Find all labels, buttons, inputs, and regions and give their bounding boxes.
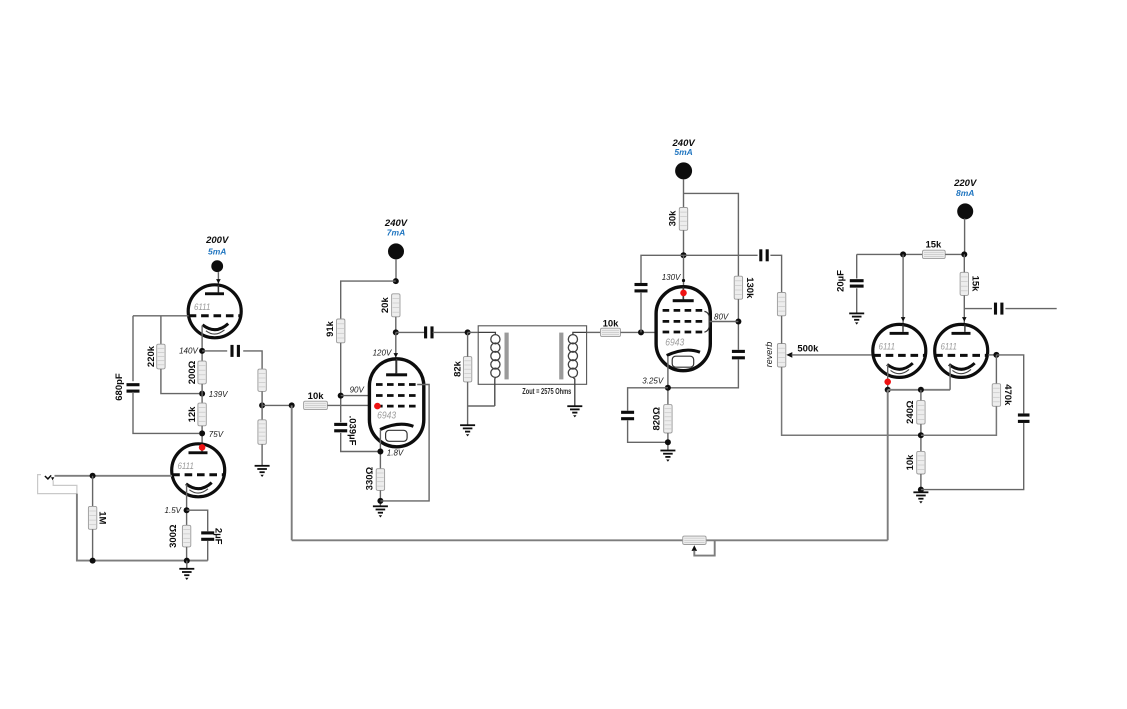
red marker on V4 plate xyxy=(680,290,687,297)
arrowhead on V1 plate lead xyxy=(216,279,221,283)
wire: 82k node into primary xyxy=(468,331,479,333)
wire: divider to ground xyxy=(261,444,263,466)
wire: V1 grid to feedback network xyxy=(133,315,189,317)
node cathode ground xyxy=(377,498,383,504)
wire: 240ohm to 10k xyxy=(920,424,922,451)
svg-text:Zout = 2575 Ohms: Zout = 2575 Ohms xyxy=(522,387,571,396)
capacitor 680pF xyxy=(127,383,140,393)
node 75V xyxy=(199,430,205,436)
svg-text:130V: 130V xyxy=(662,273,681,282)
svg-text:1.8V: 1.8V xyxy=(387,448,404,457)
triode V6 6111 (right pair right) xyxy=(935,324,988,377)
resistor reverb pot upper xyxy=(777,293,785,316)
ground below secondary xyxy=(567,406,582,417)
wire: junction to grid cap xyxy=(641,255,684,283)
node tail ground xyxy=(918,487,924,493)
wire: output stub right xyxy=(1005,308,1056,310)
capacitor right feedback xyxy=(1018,413,1030,423)
wire: tap to 10k node xyxy=(262,404,292,406)
node 139V xyxy=(199,391,205,397)
wire: V3 cathode to 330ohm xyxy=(379,430,381,469)
triode V2 6111 (input stage bottom) xyxy=(172,444,225,497)
svg-text:139V: 139V xyxy=(209,390,228,399)
capacitor to reverb pot xyxy=(759,249,769,261)
arrowhead V5 plate lead xyxy=(901,317,906,321)
wire: grid wire down to 220k xyxy=(160,316,162,344)
pot wiper arrow 500k xyxy=(786,352,792,358)
node 80V xyxy=(735,319,741,325)
wire: 15k to V6 plate xyxy=(963,295,965,325)
resistor 10k (tail) xyxy=(917,451,925,474)
supply dot 240V 5mA xyxy=(672,138,696,180)
wire: bypass cap to ground node xyxy=(628,420,668,442)
wire: V6 cathode down xyxy=(949,365,951,390)
wire: wiper to V5 grid xyxy=(792,354,873,356)
svg-text:75V: 75V xyxy=(209,430,224,439)
transformer primary winding xyxy=(478,332,500,406)
coupling capacitor at 140V xyxy=(230,345,240,357)
wire: feedback riser left xyxy=(291,405,293,540)
svg-text:reverb: reverb xyxy=(764,342,774,368)
wire: down to 680pF top xyxy=(132,316,134,381)
node 82k / primary xyxy=(465,329,471,335)
svg-text:30k: 30k xyxy=(668,210,679,227)
wire: V2 cathode to 300ohm xyxy=(186,485,188,526)
resistor 30k xyxy=(679,208,687,231)
svg-text:6111: 6111 xyxy=(194,302,211,313)
wire: junction to 91k xyxy=(341,281,396,319)
ground below 20uF xyxy=(849,313,864,324)
wire: input to V2 grid xyxy=(55,475,173,477)
wire: secondary to 10k xyxy=(587,331,601,333)
red marker on V2 plate xyxy=(199,444,206,451)
svg-text:10k: 10k xyxy=(603,318,620,329)
wire: 15k to supply node xyxy=(945,253,964,255)
wire: V3 suppressor return xyxy=(380,385,429,501)
wire: divider middle xyxy=(261,391,263,419)
capacitor 2&#181;F xyxy=(201,531,214,541)
wire: 20k to plate junction xyxy=(395,317,397,333)
svg-text:12k: 12k xyxy=(187,406,198,423)
coupling capacitor V3 plate xyxy=(424,326,434,338)
supply dot 200V xyxy=(205,235,229,272)
node input / 1M xyxy=(90,473,96,479)
svg-text:240Ω: 240Ω xyxy=(905,400,916,424)
ground below 300ohm xyxy=(179,569,194,580)
svg-text:200V: 200V xyxy=(205,235,229,246)
node supply / 15k xyxy=(961,251,967,257)
resistor 330&#937; xyxy=(376,469,384,491)
ground below 10k tail xyxy=(913,492,928,503)
svg-text:10k: 10k xyxy=(905,454,916,471)
resistor 470k xyxy=(992,384,1000,407)
wire: between pot sections xyxy=(781,316,783,344)
wire: 330ohm to ground xyxy=(379,490,381,506)
transformer T1 box xyxy=(478,326,586,385)
wire: 470k to NFB node xyxy=(921,406,997,435)
svg-text:130k: 130k xyxy=(744,277,755,299)
node V4 plate junction xyxy=(681,252,687,258)
wire: wiper tie to right terminal xyxy=(694,540,714,555)
node supply junction V3 xyxy=(393,278,399,284)
wire: input node to 1M xyxy=(92,476,94,507)
capacitor .039&#181;F xyxy=(334,423,347,433)
node V3 plate / coupling xyxy=(393,329,399,335)
wire: 30k to junction xyxy=(683,230,685,255)
input jack body xyxy=(38,475,77,494)
brace connector V4 screen xyxy=(704,311,709,332)
svg-text:6943: 6943 xyxy=(377,409,396,421)
wire: rail to 20uF xyxy=(856,254,858,278)
resistor divider lower xyxy=(258,420,266,445)
svg-text:20µF: 20µF xyxy=(836,270,847,292)
node cathode join left xyxy=(885,387,891,393)
pentode V4 6943 (output) xyxy=(656,287,710,371)
resistor divider upper xyxy=(258,369,266,391)
resistor 10k (driver grid stopper) xyxy=(304,401,328,409)
wire: .039uF to cathode node xyxy=(341,433,381,452)
wire: 220V supply down xyxy=(964,219,966,255)
svg-text:.039µF: .039µF xyxy=(347,416,358,446)
ground below 820ohm xyxy=(660,451,675,462)
wire: pot bottom to 240ohm node (NFB) xyxy=(782,367,921,435)
arrowhead V6 plate lead xyxy=(962,317,967,321)
wire: bottom feedback rail right xyxy=(706,539,888,541)
supply dot 240V 7mA xyxy=(384,218,408,259)
wire: 200ohm to 12k xyxy=(201,384,203,403)
resistor 15k (horizontal) xyxy=(923,250,946,258)
svg-text:15k: 15k xyxy=(969,276,980,293)
transformer core bars xyxy=(505,333,509,380)
svg-text:7mA: 7mA xyxy=(387,227,405,237)
svg-text:5mA: 5mA xyxy=(674,147,692,157)
capacitor screen bypass V4 xyxy=(732,350,745,360)
triode V5 6111 (right pair left) xyxy=(873,324,926,377)
wire: node to 15k vertical xyxy=(963,254,965,272)
wire: 12k to 75V node and V2 plate xyxy=(201,426,203,453)
wire: feedback riser right xyxy=(887,390,889,541)
svg-text:5mA: 5mA xyxy=(208,246,226,256)
pentode V3 6943 (driver) xyxy=(369,359,423,447)
wire: 20uF to ground xyxy=(856,288,858,313)
svg-text:220V: 220V xyxy=(953,178,977,189)
node V6 grid xyxy=(993,352,999,358)
svg-text:200Ω: 200Ω xyxy=(187,360,198,384)
node 90V xyxy=(338,393,344,399)
wire: cap to tail ground xyxy=(921,423,1024,490)
wire: 10k to ground xyxy=(920,474,922,492)
resistor reverb pot lower xyxy=(777,344,785,368)
resistor feedback pot xyxy=(683,536,706,544)
ground below 82k xyxy=(460,425,475,436)
wire: 91k to 90V node and .039uF xyxy=(340,343,342,423)
triode V1 6111 (input stage top) xyxy=(188,285,241,338)
capacitor grid coupling V4 xyxy=(635,283,648,293)
svg-text:680pF: 680pF xyxy=(114,373,125,401)
wire: junction to V4 plate xyxy=(683,255,685,301)
wire: junction to V3 plate xyxy=(395,332,397,374)
wire: to output cap xyxy=(964,308,992,310)
wire: V4 cathode to 820ohm xyxy=(667,356,669,405)
resistor 15k (vertical) xyxy=(960,272,968,295)
wire: 1M to bottom rail xyxy=(92,529,94,560)
svg-text:6111: 6111 xyxy=(940,342,957,353)
svg-text:6111: 6111 xyxy=(177,461,194,472)
resistor 12k xyxy=(198,403,206,426)
svg-text:820Ω: 820Ω xyxy=(651,407,662,431)
svg-text:470k: 470k xyxy=(1002,384,1013,406)
wire: junction to reverb cap xyxy=(684,254,758,256)
wire: 140V node to coupling cap xyxy=(202,350,227,352)
svg-text:300Ω: 300Ω xyxy=(168,524,179,548)
svg-text:1M: 1M xyxy=(97,511,108,524)
svg-text:8mA: 8mA xyxy=(956,188,974,198)
node NFB xyxy=(918,432,924,438)
node 140V xyxy=(199,348,205,354)
wire: 240V supply to junction xyxy=(395,259,397,281)
svg-text:120V: 120V xyxy=(373,349,392,358)
wire: 90V node to V3 screen grid xyxy=(341,395,370,397)
wire: cap down to cathode node xyxy=(668,359,739,388)
svg-text:10k: 10k xyxy=(308,391,325,402)
wire: to coupling cap xyxy=(396,331,425,333)
wire: 82k to ground xyxy=(467,382,469,425)
resistor 1M xyxy=(88,506,96,529)
node 3.25V xyxy=(665,385,671,391)
wire: rail to ground xyxy=(186,561,188,569)
node 10k / feedback takeoff xyxy=(289,402,295,408)
svg-text:220k: 220k xyxy=(146,345,157,367)
arrowhead on V3 plate lead xyxy=(394,353,399,357)
svg-text:2µF: 2µF xyxy=(213,528,224,545)
wire: 680pF bottom to 75V node xyxy=(133,392,199,434)
wire: 200V supply to V1 plate xyxy=(217,272,219,293)
svg-text:91k: 91k xyxy=(325,320,336,337)
wire: V6 grid out xyxy=(988,354,996,356)
node 1M bottom xyxy=(90,558,96,564)
wire: V5 cathode down xyxy=(887,365,889,390)
wire: 300ohm to ground rail xyxy=(186,547,188,561)
wire: V1 cathode to 140V node xyxy=(201,326,203,362)
wire: cap to reverb divider xyxy=(770,255,781,292)
svg-text:140V: 140V xyxy=(179,347,198,356)
resistor 240&#937; xyxy=(917,401,925,425)
ground below 330ohm xyxy=(373,506,388,517)
wire: 820ohm to ground xyxy=(667,433,669,451)
node 1.8V xyxy=(377,449,383,455)
svg-text:500k: 500k xyxy=(797,344,819,355)
wire: cap to V4 grid node xyxy=(640,292,642,332)
wire: 10k to V4 grid xyxy=(621,331,657,333)
node V5 plate feed xyxy=(900,251,906,257)
capacitor output right xyxy=(994,303,1003,315)
capacitor 20&#181;F xyxy=(850,279,864,288)
wire: cap to 82k node xyxy=(433,331,468,333)
capacitor cathode bypass V4 xyxy=(621,411,634,421)
wire: 2uF to ground rail xyxy=(207,541,209,561)
input jack tip contact xyxy=(45,475,51,479)
supply dot 220V 8mA xyxy=(953,178,977,220)
resistor 91k xyxy=(337,319,345,343)
wire: rail to 15k horizontal xyxy=(857,253,923,255)
svg-text:3.25V: 3.25V xyxy=(642,377,664,386)
resistor 10k (grid V4) xyxy=(601,328,621,336)
node 1.5V xyxy=(184,507,190,513)
wire: join to 240ohm xyxy=(920,390,922,401)
wire: to V5 plate xyxy=(902,254,904,325)
svg-text:1.5V: 1.5V xyxy=(165,506,182,515)
wire: 1.5V node to 2uF xyxy=(187,510,208,531)
red marker on V3 control grid xyxy=(374,403,381,410)
node ground rail xyxy=(184,558,190,564)
wire: supply branch to 130k xyxy=(684,193,739,276)
svg-text:6943: 6943 xyxy=(665,337,684,349)
svg-text:20k: 20k xyxy=(380,297,391,314)
wire: 10k to V3 grid xyxy=(327,404,370,406)
wire: jack sleeve to ground rail xyxy=(77,494,208,561)
wire: coupling cap to divider xyxy=(243,351,262,369)
tiny junction at 130V xyxy=(682,279,685,282)
svg-text:80V: 80V xyxy=(714,312,729,321)
wire: bottom feedback rail left xyxy=(292,539,683,541)
ground below divider xyxy=(255,466,270,477)
wire: supply to 30k xyxy=(683,179,685,207)
svg-text:82k: 82k xyxy=(452,360,463,377)
red marker on V5 cathode xyxy=(884,379,891,386)
feedback pot wiper arrow xyxy=(692,545,698,551)
svg-text:90V: 90V xyxy=(350,385,365,394)
node 820ohm ground xyxy=(665,439,671,445)
resistor 200&#937; xyxy=(198,361,206,384)
wire: 220k bottom to 139V node xyxy=(161,369,199,394)
resistor 82k xyxy=(463,357,471,382)
node V4 grid xyxy=(638,329,644,335)
transformer secondary winding xyxy=(568,332,586,406)
wire: cathode to bypass cap xyxy=(628,388,668,411)
wire: node to 82k xyxy=(467,332,469,356)
wire: grid to 470k xyxy=(995,355,997,384)
wire: cathode join xyxy=(888,389,950,391)
resistor 130k xyxy=(734,276,742,299)
wire: grid to right cap xyxy=(996,355,1023,414)
node 240ohm top xyxy=(918,387,924,393)
resistor 20k xyxy=(392,294,400,317)
svg-text:330Ω: 330Ω xyxy=(365,466,376,490)
resistor 300&#937; xyxy=(182,525,190,547)
wire: 130k to 80V node and cap xyxy=(737,299,739,350)
node divider tap xyxy=(259,402,265,408)
wire: screen to 80V node xyxy=(710,321,739,323)
wire: primary return to 82k ground leg xyxy=(468,405,495,407)
resistor 820&#937; xyxy=(664,405,672,433)
svg-text:15k: 15k xyxy=(925,240,942,251)
resistor 220k xyxy=(157,344,165,369)
svg-text:6111: 6111 xyxy=(879,342,896,353)
